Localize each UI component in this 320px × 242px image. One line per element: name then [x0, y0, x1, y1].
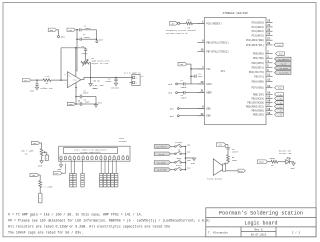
svg-text:2: 2: [136, 82, 137, 85]
svg-text:SW_UP: SW_UP: [158, 153, 165, 156]
svg-text:SW_PRESET: SW_PRESET: [278, 58, 290, 61]
svg-text:system compatible: system compatible: [80, 151, 101, 154]
svg-text:LCD7: LCD7: [277, 106, 283, 109]
svg-text:## 100R: ## 100R: [44, 186, 53, 189]
svg-text:PB4(MISO): PB4(MISO): [252, 110, 265, 113]
svg-text:VCC: VCC: [206, 68, 211, 71]
svg-text:PC1(ADC1): PC1(ADC1): [252, 26, 265, 29]
svg-text:PD1(TXD): PD1(TXD): [253, 57, 264, 60]
svg-text:11: 11: [104, 155, 106, 157]
svg-text:HEAT: HEAT: [259, 161, 265, 164]
svg-text:09.07.2013: 09.07.2013: [251, 233, 267, 236]
svg-text:10uF: 10uF: [85, 101, 91, 104]
svg-text:PB6(XTAL1/TOSC1): PB6(XTAL1/TOSC1): [206, 41, 228, 44]
svg-text:ATMEGA8 16A/16P: ATMEGA8 16A/16P: [223, 11, 248, 15]
svg-text:2: 2: [65, 155, 66, 157]
svg-text:13: 13: [113, 155, 115, 157]
svg-text:100nF: 100nF: [85, 27, 92, 30]
svg-text:PD2(INT0): PD2(INT0): [252, 62, 265, 65]
svg-text:SW_DOWN: SW_DOWN: [279, 67, 288, 70]
svg-text:SW_ENTER: SW_ENTER: [279, 72, 289, 75]
svg-text:7: 7: [87, 155, 88, 157]
svg-text:2.2k: 2.2k: [45, 75, 51, 78]
svg-text:PC6(/RESET): PC6(/RESET): [206, 22, 221, 25]
svg-text:PC2(ADC2): PC2(ADC2): [252, 30, 265, 33]
svg-text:PC0(ADC0): PC0(ADC0): [252, 21, 265, 24]
svg-text:down: down: [177, 157, 183, 160]
svg-text:LCD6: LCD6: [277, 102, 283, 105]
svg-text:2 / 2: 2 / 2: [292, 230, 301, 234]
svg-text:AVCC: AVCC: [206, 83, 212, 86]
svg-text:4: 4: [74, 155, 75, 157]
svg-text:Piezo buzzer: Piezo buzzer: [207, 178, 223, 181]
svg-text:PD3(INT1): PD3(INT1): [252, 66, 265, 69]
svg-text:IC1: IC1: [221, 70, 226, 73]
svg-text:4k7: 4k7: [187, 18, 192, 21]
svg-text:1: 1: [60, 155, 61, 157]
svg-text:PD4(XCK/T0): PD4(XCK/T0): [249, 71, 264, 74]
svg-text:version used in fw: version used in fw: [166, 32, 188, 35]
svg-text:16: 16: [126, 155, 128, 157]
svg-text:6: 6: [83, 155, 84, 157]
svg-text:SW_ENTER: SW_ENTER: [157, 169, 167, 172]
svg-text:# = TC AMP gain = 1k5 / 100 /: # = TC AMP gain = 1k5 / 100 / 88. In thi…: [8, 212, 143, 216]
svg-text:Solder Out: Solder Out: [40, 87, 53, 90]
svg-text:PD6(AIN0): PD6(AIN0): [252, 80, 265, 83]
svg-text:PB1(OC1A): PB1(OC1A): [252, 97, 265, 100]
svg-text:100uF: 100uF: [232, 151, 239, 154]
svg-text:T. Alexandru: T. Alexandru: [208, 231, 228, 235]
svg-text:12: 12: [109, 155, 111, 157]
svg-text:8: 8: [92, 155, 93, 157]
svg-text:560R: 560R: [270, 157, 276, 160]
svg-text:PC5(ADC5/SCL): PC5(ADC5/SCL): [246, 44, 264, 47]
svg-text:(+) K-type TC: (+) K-type TC: [124, 72, 142, 75]
svg-text:100R: 100R: [232, 159, 238, 162]
svg-text:Poorman's Soldering station: Poorman's Soldering station: [219, 211, 303, 217]
svg-text:Ground: Ground: [111, 86, 119, 89]
svg-text:PB0(ICP): PB0(ICP): [253, 93, 264, 96]
svg-text:SW_PRESET: SW_PRESET: [156, 146, 168, 149]
svg-text:100nF: 100nF: [181, 86, 188, 89]
svg-text:10uF: 10uF: [198, 75, 204, 78]
svg-text:3: 3: [69, 155, 70, 157]
svg-text:LCDR: LCDR: [277, 114, 283, 117]
svg-text:PB7(XTAL2/TOSC2): PB7(XTAL2/TOSC2): [206, 50, 228, 53]
svg-text:5: 5: [78, 155, 79, 157]
svg-text:## = Please see LED datasheet: ## = Please see LED datasheet for LED in…: [8, 218, 210, 222]
svg-text:PD5(T1): PD5(T1): [254, 75, 264, 78]
svg-text:100nF: 100nF: [105, 80, 112, 83]
svg-text:All resistors are rated 0.125W: All resistors are rated 0.125W or 0.25W.…: [8, 224, 170, 228]
svg-text:PB2(SS/OC1B): PB2(SS/OC1B): [247, 101, 264, 104]
svg-text:10k / 100k: 10k / 100k: [21, 150, 34, 153]
svg-text:PC4(ADC4/SDA): PC4(ADC4/SDA): [246, 39, 264, 42]
svg-text:2: 2: [64, 81, 65, 84]
svg-text:adjust to TYPE: adjust to TYPE: [91, 62, 109, 65]
svg-text:AREF: AREF: [206, 92, 212, 95]
svg-text:-REF: -REF: [68, 103, 74, 106]
svg-text:LCDE: LCDE: [277, 110, 283, 113]
svg-text:100nF: 100nF: [84, 36, 91, 39]
svg-text:PD7(AIN1): PD7(AIN1): [252, 87, 265, 90]
svg-text:The 100nF caps are rated for 5: The 100nF caps are rated for 50 / 63v.: [8, 230, 83, 234]
svg-text:Logic board: Logic board: [244, 221, 277, 227]
svg-text:10: 10: [100, 155, 102, 157]
svg-text:enter: enter: [176, 164, 183, 167]
svg-text:10k R9: 10k R9: [93, 79, 101, 82]
svg-text:PD0(RXD): PD0(RXD): [253, 53, 264, 56]
svg-text:15: 15: [122, 155, 124, 157]
svg-text:LED-: LED-: [54, 172, 59, 175]
svg-text:Rev 6: Rev 6: [255, 229, 263, 232]
svg-text:GND: GND: [206, 107, 211, 110]
svg-text:ADC6: ADC6: [93, 87, 99, 90]
svg-text:status LED: status LED: [279, 152, 292, 155]
svg-text:GND: GND: [206, 115, 211, 118]
svg-text:100nF: 100nF: [181, 97, 188, 100]
svg-text:100nF: 100nF: [81, 52, 88, 55]
svg-text:14: 14: [118, 155, 120, 157]
svg-text:LCD5: LCD5: [277, 98, 283, 101]
svg-text:SW_DOWN: SW_DOWN: [157, 161, 166, 164]
svg-text:SW_UP: SW_UP: [281, 63, 288, 66]
svg-text:PB3(MOSI/OC2): PB3(MOSI/OC2): [246, 105, 264, 108]
svg-text:LCD4: LCD4: [277, 93, 283, 96]
svg-text:PB5(SCK): PB5(SCK): [253, 114, 264, 117]
svg-text:PC3(ADC3): PC3(ADC3): [252, 35, 265, 38]
svg-text:9: 9: [96, 155, 97, 157]
svg-text:preset: preset: [175, 141, 182, 144]
svg-text:100nF: 100nF: [83, 92, 90, 95]
svg-text:PC1604: PC1604: [119, 140, 128, 143]
